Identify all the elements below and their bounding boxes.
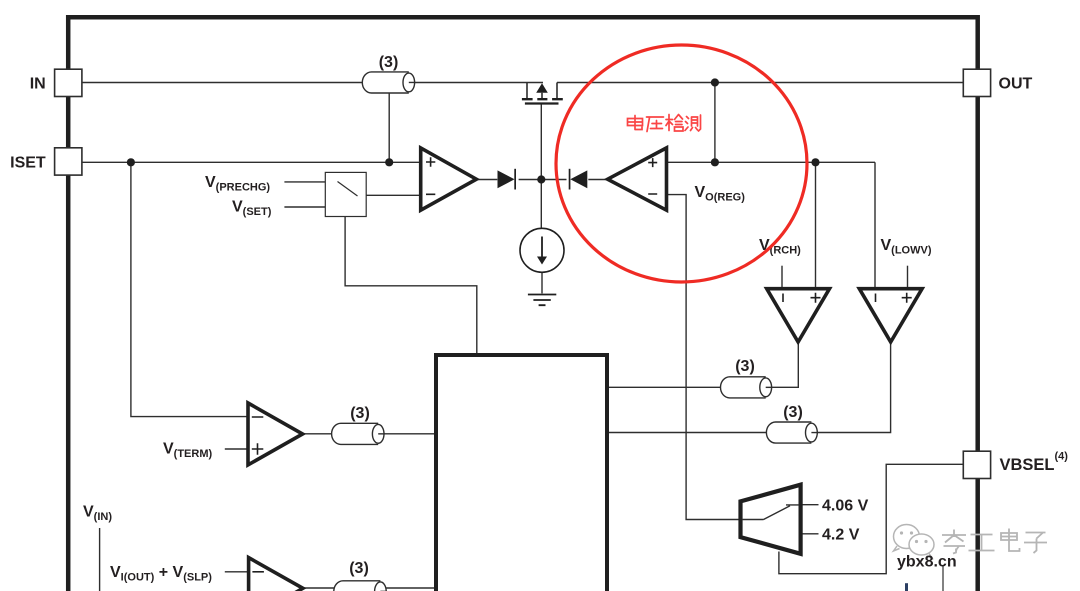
svg-text:VI(OUT) + V(SLP): VI(OUT) + V(SLP) xyxy=(110,564,212,584)
wire mux voltage taps xyxy=(801,505,819,534)
comparator U6 bottom xyxy=(249,558,303,591)
resistor R4 V(LOWV) path xyxy=(766,422,818,443)
U4 plus minus signs xyxy=(876,293,912,303)
svg-text:OUT: OUT xyxy=(999,76,1033,93)
wire D2 to comparator U2 output xyxy=(588,179,607,181)
wire U2 plus input sense line xyxy=(667,161,876,163)
resistor R5 bottom path xyxy=(334,581,387,591)
resistor R3 V(RCH) path xyxy=(721,377,773,398)
wire IN rail xyxy=(82,82,964,84)
wire switch to op-amp minus input xyxy=(366,194,421,196)
svg-text:V(PRECHG): V(PRECHG) xyxy=(205,174,270,194)
watermark text 李工电子 xyxy=(942,529,1047,554)
wire sense to V(RCH) plus input xyxy=(815,162,817,288)
wire resistor R1 to ISET node xyxy=(388,93,390,163)
wire V(LOWV) output to logic block xyxy=(609,342,891,433)
svg-text:V(LOWV): V(LOWV) xyxy=(881,237,932,257)
pin VBSEL box xyxy=(963,451,990,478)
wire V(LOWV) label stub xyxy=(907,266,909,289)
pin IN box xyxy=(55,69,82,96)
wire mux output to VBSEL xyxy=(779,464,963,573)
svg-text:V(TERM): V(TERM) xyxy=(163,441,212,461)
svg-text:(3): (3) xyxy=(350,405,370,422)
watermark wechat icon xyxy=(894,525,935,559)
wire D1 to center node xyxy=(519,179,567,181)
wire ISET rail xyxy=(82,161,421,163)
wire ISET to V(TERM) comparator minus input xyxy=(131,162,248,416)
U1 plus minus signs xyxy=(426,157,435,194)
svg-text:ybx8.cn: ybx8.cn xyxy=(897,554,957,571)
svg-text:4.06 V: 4.06 V xyxy=(822,498,869,515)
ground xyxy=(528,295,556,306)
bottom cut glyph xyxy=(905,583,908,591)
U3 plus minus signs xyxy=(783,293,821,303)
comparator U3 V(RCH) xyxy=(767,289,830,342)
wire V I(OUT)+V(SLP) input xyxy=(225,571,249,573)
wire V(RCH) label stub xyxy=(781,266,783,289)
U5 plus minus signs xyxy=(252,417,263,455)
wire U2 minus input to mux xyxy=(667,195,764,520)
svg-text:(3): (3) xyxy=(783,404,803,421)
svg-text:(4): (4) xyxy=(1055,451,1069,463)
svg-text:4.2 V: 4.2 V xyxy=(822,527,860,544)
svg-text:(3): (3) xyxy=(735,358,755,375)
wire current source to ground xyxy=(541,272,543,293)
wire V(PRECHG) input xyxy=(284,181,325,183)
comparator U4 V(LOWV) xyxy=(859,289,922,342)
MOSFET Q1 arrow xyxy=(536,83,548,93)
logic block xyxy=(436,355,607,591)
current source I1 xyxy=(520,228,564,272)
svg-text:V(SET): V(SET) xyxy=(232,199,272,219)
resistor R1 (3) top xyxy=(362,72,415,93)
svg-text:ISET: ISET xyxy=(10,155,46,172)
comparator U2 voltage detect xyxy=(608,148,667,210)
mux input wire inside xyxy=(742,505,799,520)
comparator U5 V(TERM) xyxy=(248,403,303,465)
mux voltage select trapezoid xyxy=(741,485,801,554)
resistor R2 V(TERM) path xyxy=(332,423,385,444)
diode D2 xyxy=(569,169,588,190)
U2 plus minus signs xyxy=(648,158,657,194)
switch S1 PRECHG/SET select box xyxy=(325,172,366,216)
MOSFET Q1 xyxy=(527,83,557,99)
svg-text:(3): (3) xyxy=(379,54,399,71)
wire U6 output through resistor to block xyxy=(302,587,434,589)
wire V(TERM) input xyxy=(225,448,248,450)
pin OUT box xyxy=(963,69,990,96)
wire MOSFET gate down through node to current source xyxy=(540,104,542,229)
wire bottom unknown stub xyxy=(942,566,944,591)
wire V(RCH) output to logic block xyxy=(609,342,798,387)
U6 minus sign xyxy=(252,571,264,573)
wire switch bottom to logic block top xyxy=(345,217,477,355)
red annotation text 电压检测 xyxy=(628,115,701,132)
diode D1 xyxy=(498,169,517,190)
svg-text:V(IN): V(IN) xyxy=(83,504,112,524)
junction node dots xyxy=(127,78,820,183)
wire V(SET) input xyxy=(284,206,325,208)
wire sense to V(LOWV) minus input xyxy=(874,162,876,288)
red annotation circle xyxy=(556,45,807,282)
wire op-amp U1 output to diode D1 xyxy=(476,179,497,181)
wire V(IN) stub xyxy=(99,528,101,591)
pin ISET box xyxy=(55,148,82,175)
svg-text:IN: IN xyxy=(30,76,46,93)
op-amp U1 current amplifier xyxy=(421,148,477,210)
svg-text:(3): (3) xyxy=(349,560,369,577)
svg-text:VO(REG): VO(REG) xyxy=(695,184,746,204)
wire OUT node down to sense line xyxy=(714,83,716,163)
wire U5 output through resistor to block xyxy=(303,433,434,435)
svg-text:VBSEL: VBSEL xyxy=(1000,456,1055,474)
